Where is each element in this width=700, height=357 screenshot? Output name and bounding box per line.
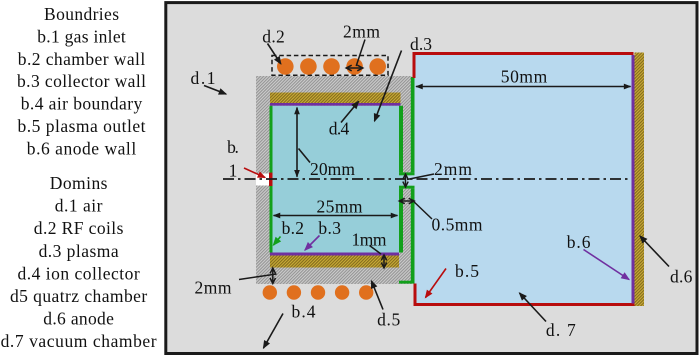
label arrow d.6 xyxy=(640,236,669,267)
label arrow d.1 xyxy=(204,86,226,95)
svg-text:b.5: b.5 xyxy=(455,261,479,281)
label arrow d.5 xyxy=(372,281,384,310)
bottom purple collector wall line xyxy=(270,253,399,256)
domain d.3 plasma cyan region xyxy=(273,106,400,253)
svg-text:d.3 plasma: d.3 plasma xyxy=(39,241,119,261)
svg-text:d.6 anode: d.6 anode xyxy=(43,309,114,329)
svg-text:b.2: b.2 xyxy=(282,218,304,238)
svg-text:Boundries: Boundries xyxy=(44,4,119,24)
domain d.4 ion collector bottom strip xyxy=(270,256,399,268)
RF coil bottom 2 xyxy=(287,285,301,299)
RF coil bottom 4 xyxy=(335,285,349,299)
boundary b.3 collector wall top purple line xyxy=(270,103,401,106)
svg-text:d.7 vacuum chamber: d.7 vacuum chamber xyxy=(1,331,157,351)
label arrow b.6 purple xyxy=(584,250,630,280)
svg-text:Domins: Domins xyxy=(50,173,108,193)
label arrow b.3 purple xyxy=(305,236,320,251)
svg-text:d.4 ion collector: d.4 ion collector xyxy=(17,263,139,283)
label arrow b.5 red xyxy=(426,269,447,298)
svg-text:d.1: d.1 xyxy=(191,68,216,88)
RF coil top 4 xyxy=(346,58,363,75)
domain d.1 air: outer frame xyxy=(166,3,697,354)
svg-text:2mm: 2mm xyxy=(195,278,232,298)
boundary b.5 red outline of vacuum chamber xyxy=(413,52,634,55)
svg-text:d5 quatrz chamber: d5 quatrz chamber xyxy=(10,286,147,306)
RF coil bottom 5 xyxy=(359,285,373,299)
svg-text:d.3: d.3 xyxy=(410,34,432,54)
dimension 25mm xyxy=(274,215,398,217)
svg-text:b.4: b.4 xyxy=(291,301,315,321)
left legend text column xyxy=(1,4,157,351)
svg-text:b.: b. xyxy=(227,137,239,157)
label arrow b.4 xyxy=(264,314,284,349)
svg-text:b.4 air boundary: b.4 air boundary xyxy=(21,94,143,114)
domain d.4 ion collector top strip xyxy=(270,93,401,104)
boundary b.6 anode wall purple line xyxy=(632,55,635,304)
svg-text:50mm: 50mm xyxy=(501,67,548,87)
domain d.6 anode strip xyxy=(635,53,645,307)
svg-text:d.1 air: d.1 air xyxy=(55,196,103,216)
right wall green outline upper segment xyxy=(399,106,403,173)
svg-text:b.1 gas inlet: b.1 gas inlet xyxy=(37,26,126,46)
label arrow d.3 xyxy=(375,51,402,122)
svg-text:1: 1 xyxy=(229,161,238,181)
svg-text:d.5: d.5 xyxy=(377,310,400,330)
dimension 50mm xyxy=(416,86,631,88)
svg-text:d.2: d.2 xyxy=(262,27,285,47)
domain d.7 vacuum chamber blue region xyxy=(415,54,632,304)
RF coil top 3 xyxy=(323,58,340,75)
diagram text labels xyxy=(191,22,693,341)
label arrow d.2 xyxy=(268,44,281,64)
svg-text:2mm: 2mm xyxy=(434,159,472,179)
dimension 0.5mm wall thickness xyxy=(399,198,432,219)
svg-text:b.6: b.6 xyxy=(567,232,591,252)
svg-text:b.3: b.3 xyxy=(318,218,341,238)
label arrow d.7 xyxy=(520,293,547,322)
dimension 2mm coil diameter xyxy=(346,40,365,71)
axis centerline dash-dot xyxy=(223,178,631,180)
RF coil bottom 1 xyxy=(263,285,277,299)
RF coil top 5 xyxy=(369,58,386,75)
right wall green outline lower segment xyxy=(399,186,415,189)
RF coil bottom 3 xyxy=(311,285,325,299)
RF coil top 2 xyxy=(300,58,317,75)
outlet notch gap fill cyan side xyxy=(399,175,406,185)
svg-text:d.6: d.6 xyxy=(670,266,693,286)
svg-text:d.4: d.4 xyxy=(329,119,350,139)
svg-text:b.6 anode wall: b.6 anode wall xyxy=(27,138,137,158)
domain d.5 quartz chamber gray hatched block xyxy=(256,76,412,284)
domain d.2 RF coils dashed box xyxy=(272,56,388,76)
gas inlet white channel xyxy=(256,174,270,186)
svg-text:2mm: 2mm xyxy=(343,22,380,42)
svg-text:20mm: 20mm xyxy=(310,159,355,179)
dimension 1mm collector thickness xyxy=(370,246,387,268)
boundary b.2 chamber wall left green line xyxy=(270,106,273,253)
label arrow b.2 green xyxy=(274,237,281,246)
dimension 2mm bottom wall xyxy=(239,268,277,283)
outlet notch gap fill blue side xyxy=(406,175,415,185)
svg-text:b.2 chamber wall: b.2 chamber wall xyxy=(18,49,146,69)
svg-text:0.5mm: 0.5mm xyxy=(432,215,483,235)
svg-text:1mm: 1mm xyxy=(352,230,387,250)
label arrow d.4 xyxy=(341,102,359,123)
svg-text:b.3 collector wall: b.3 collector wall xyxy=(17,71,146,91)
label arrow b.1 red xyxy=(244,168,265,178)
dimension 20mm xyxy=(297,108,310,177)
boundary b.1 gas inlet red bar xyxy=(269,173,273,186)
svg-text:d.2 RF coils: d.2 RF coils xyxy=(34,218,124,238)
dimension 2mm outlet gap xyxy=(403,174,434,187)
RF coil top 1 xyxy=(277,58,294,75)
svg-text:25mm: 25mm xyxy=(317,197,363,217)
svg-text:d. 7: d. 7 xyxy=(546,320,576,340)
svg-text:b.5 plasma outlet: b.5 plasma outlet xyxy=(18,116,146,136)
